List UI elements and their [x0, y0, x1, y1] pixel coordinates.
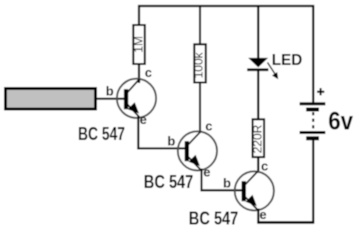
svg-text:1M: 1M	[131, 36, 145, 53]
svg-text:e: e	[203, 165, 210, 180]
svg-text:b: b	[167, 134, 175, 149]
svg-text:c: c	[205, 118, 212, 133]
svg-text:b: b	[223, 175, 231, 190]
svg-text:6v: 6v	[328, 108, 353, 136]
svg-text:220R: 220R	[250, 124, 264, 153]
svg-text:BC 547: BC 547	[189, 209, 239, 229]
svg-text:c: c	[145, 65, 152, 80]
svg-text:100k: 100k	[192, 51, 206, 78]
svg-text:e: e	[259, 207, 266, 222]
svg-text:BC 547: BC 547	[78, 124, 125, 144]
svg-text:LED: LED	[272, 52, 303, 69]
svg-text:c: c	[261, 158, 268, 173]
svg-text:e: e	[140, 112, 147, 127]
svg-text:BC 547: BC 547	[144, 172, 194, 192]
svg-text:b: b	[106, 83, 114, 98]
